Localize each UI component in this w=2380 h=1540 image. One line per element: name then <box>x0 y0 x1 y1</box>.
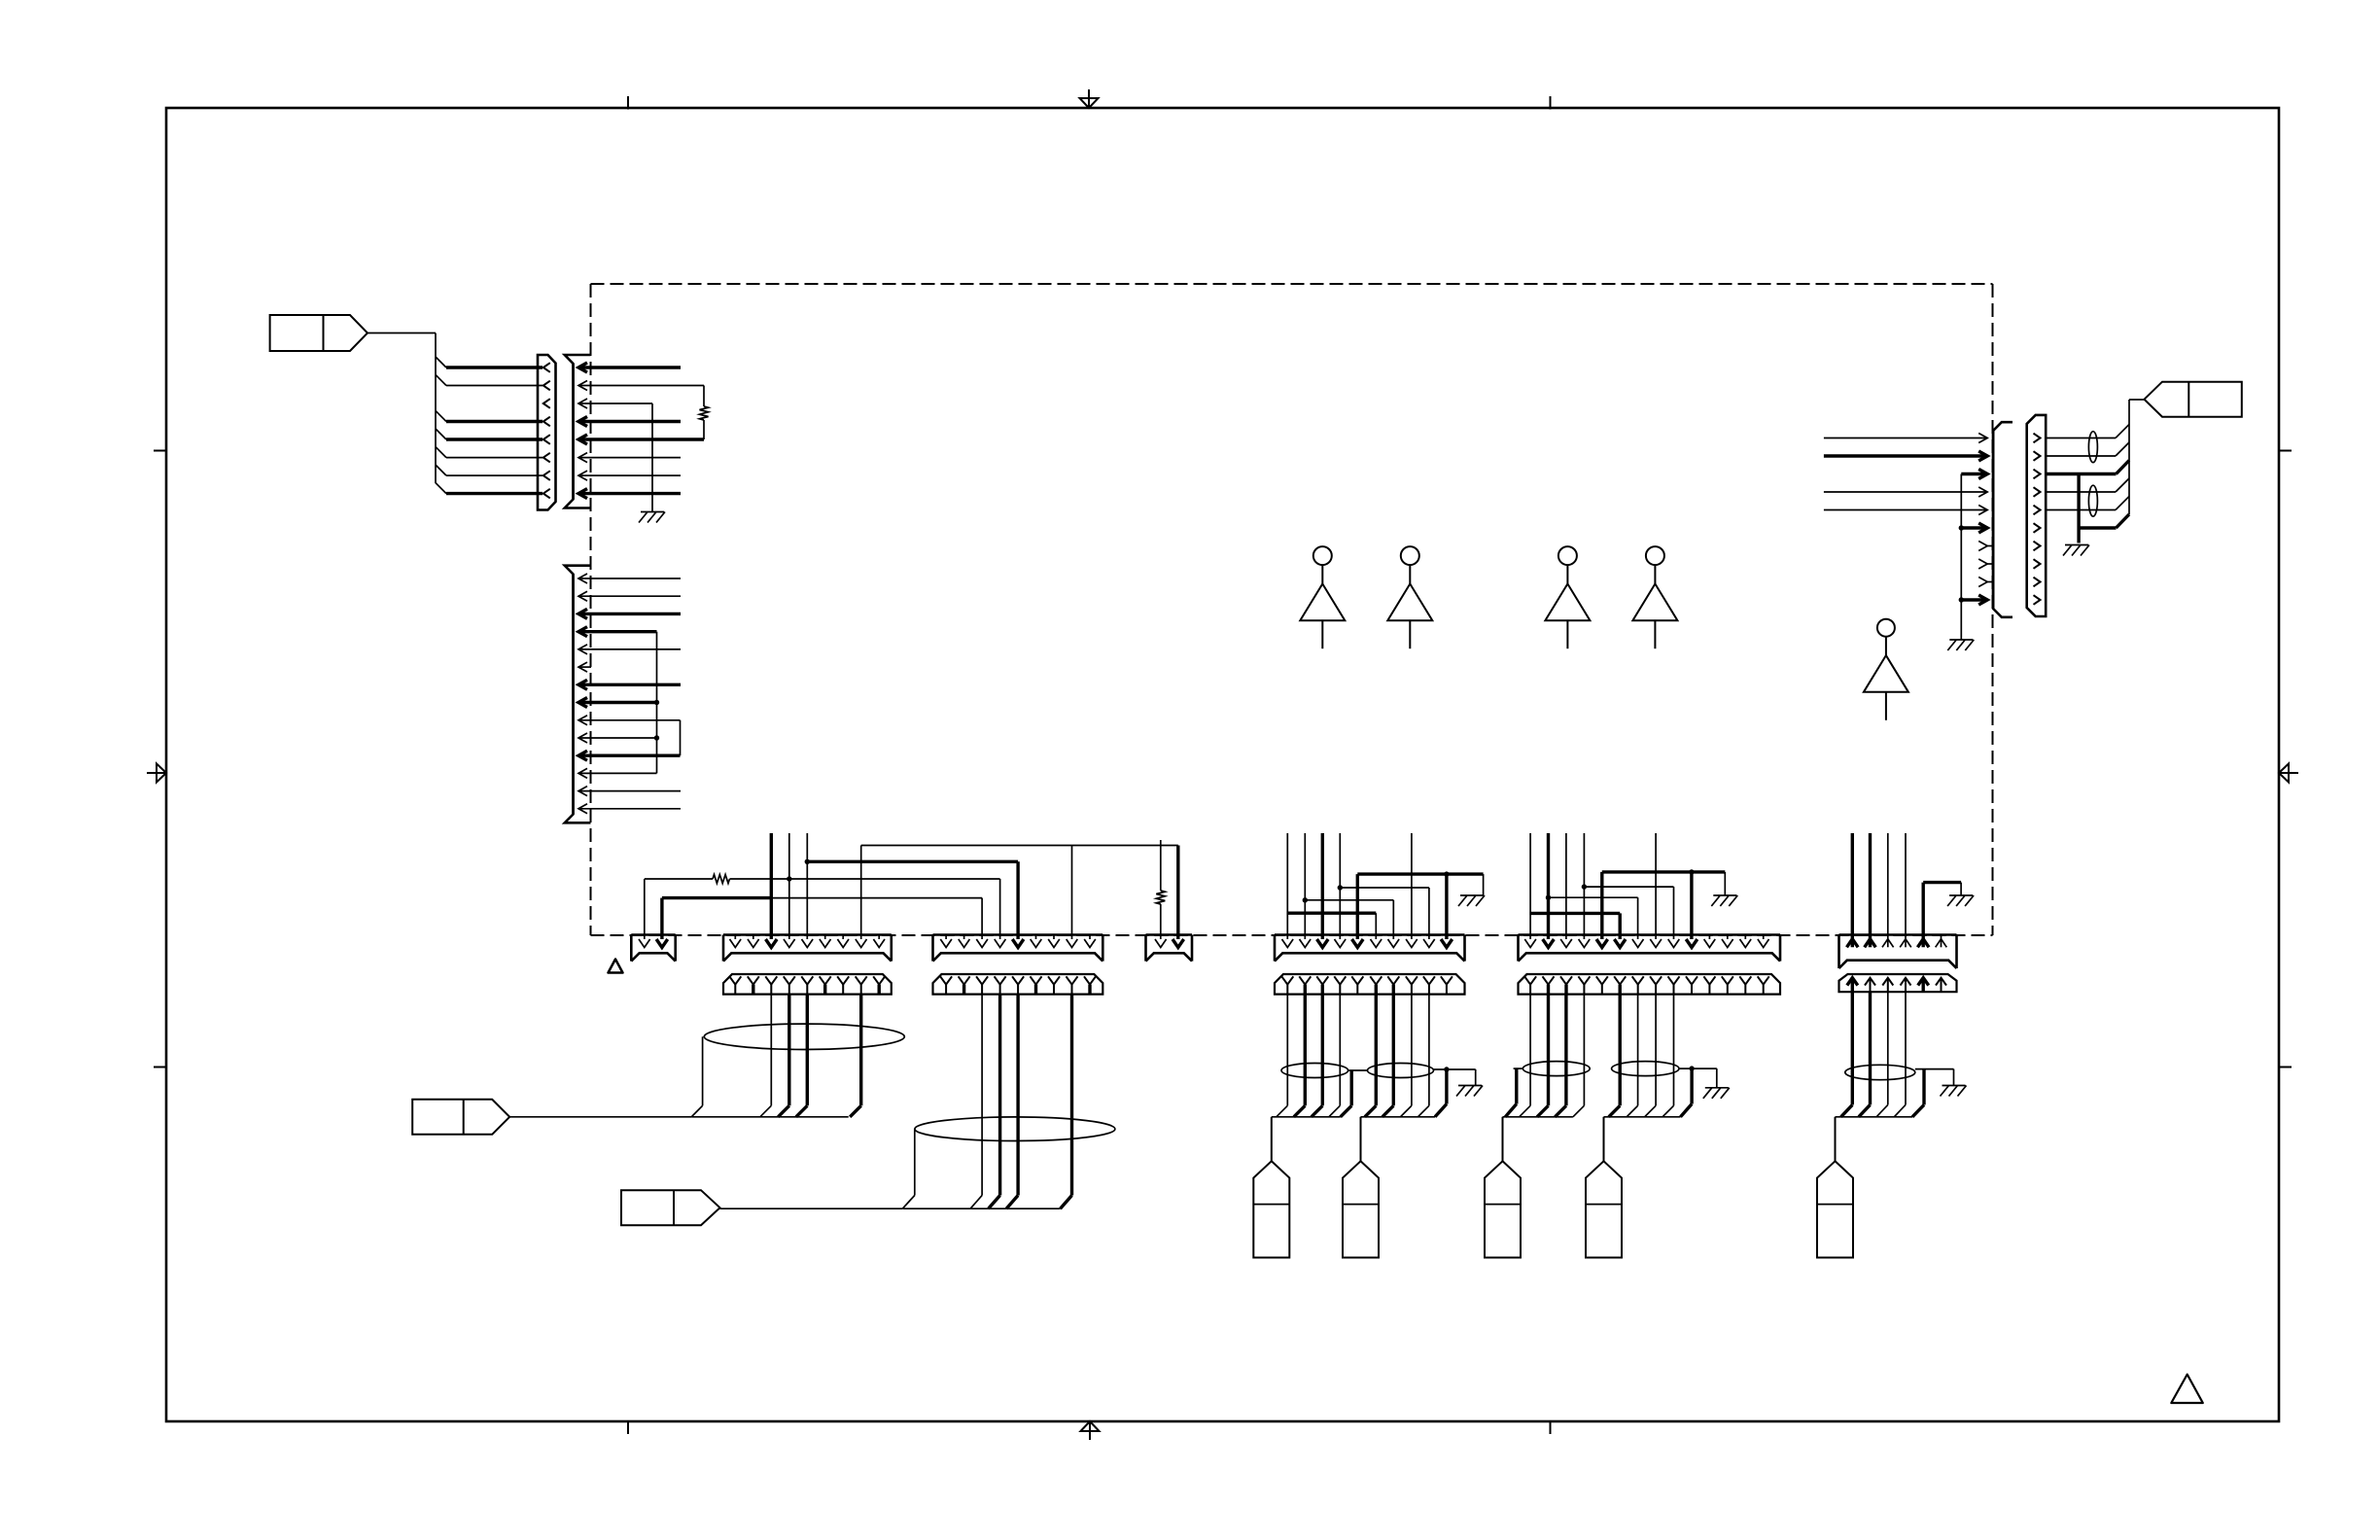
cable tie ellipse F <box>1612 1062 1679 1076</box>
cable tie ellipse C <box>1281 1064 1348 1078</box>
wire stub to P8.1 (thick) <box>1851 833 1854 947</box>
ground symbol (P6 net) <box>1458 895 1485 906</box>
cable C gather line <box>1272 1116 1341 1118</box>
cable D riser and ground link <box>1434 1069 1476 1117</box>
connector J2 pin wires <box>580 578 681 809</box>
ground symbol (J3) <box>1947 640 1974 650</box>
ground symbol (J1) <box>639 512 665 523</box>
indicator lamp DS4 <box>1632 546 1677 648</box>
wire P3.8 to P4.8 to P5.2 <box>861 846 1178 940</box>
ground symbol (cable G shield) <box>1941 1086 1967 1097</box>
loop wire B (J2 pins 9-11) <box>680 720 682 755</box>
connector P8 (6-pin, up arrows) <box>1839 935 1957 969</box>
harness fan-out wires to connector P1 <box>436 357 542 494</box>
junction P6.4 <box>1338 885 1343 890</box>
junction P3.4 on resistor net <box>787 876 791 881</box>
cable flag label W5 (bottle) <box>1343 1117 1379 1258</box>
cable bundle F wires (S7 pins 6-9) <box>1609 995 1674 1117</box>
connector J2 receptacle (14-pin bracket) <box>565 566 591 823</box>
cable tie ellipse B <box>915 1117 1115 1141</box>
junction cable D riser <box>1444 1067 1449 1071</box>
P3 pin arrows <box>730 939 886 948</box>
P6 pin arrows <box>1282 939 1452 948</box>
wire stub to P6.4 <box>1339 833 1341 939</box>
centering marker right <box>2279 764 2298 783</box>
ferrite bead FB1 <box>2088 432 2097 463</box>
connector P2 (2-pin, bottom left) <box>631 935 675 962</box>
ground branch wire (J3 pins 3/6/10) <box>1960 474 1962 641</box>
dashed module boundary box <box>591 284 1993 935</box>
junction P3.5 <box>805 859 810 864</box>
wire from flag W1 to bus <box>367 333 436 484</box>
border zone tick bottom-right <box>1550 1420 1552 1434</box>
P5 pin arrows <box>1155 939 1184 948</box>
connector J3 receptacle (right, bracket) <box>1993 422 2012 617</box>
wire stub to P3.5 <box>806 833 808 939</box>
cable F riser and ground link <box>1679 1068 1717 1117</box>
wire P7.4 to P7.9 <box>1584 887 1673 939</box>
cable bundle B wires (S4) <box>970 995 1071 1209</box>
cable tie ellipse G <box>1845 1065 1915 1079</box>
centering marker top <box>1080 89 1099 108</box>
connector S7 (14-pin mate of P7) <box>1519 974 1781 995</box>
border zone tick left-lower <box>154 1067 167 1068</box>
cable F gather line <box>1604 1116 1681 1118</box>
cable bundle G wires (S8 pins 1-4) <box>1841 992 1906 1117</box>
ground symbol (P7 net) <box>1711 895 1737 906</box>
harness bus to flag W9 <box>2129 400 2145 514</box>
centering marker left <box>147 764 166 783</box>
connector P3 (9-pin) <box>723 935 892 962</box>
connector S4 (9-pin mate of P4) <box>933 974 1103 995</box>
revision triangle marker (small) <box>609 960 623 973</box>
wire stub to P7.8 <box>1655 833 1657 939</box>
cable flag label W6 (bottle) <box>1485 1117 1521 1258</box>
wire stub to P3.3 (thick) <box>770 833 773 939</box>
wire P3.5 to P4.5 (thick) <box>807 861 1018 939</box>
cable B lead to flag W3 <box>720 1129 1061 1208</box>
cable flag label W1 (top-left) <box>270 315 367 351</box>
cable flag label W7 (bottle) <box>1586 1117 1622 1258</box>
wire stub to P6.3 (thick) <box>1321 833 1324 939</box>
sheet border frame <box>166 108 2279 1421</box>
wire stub to P6.8 <box>1411 833 1413 939</box>
cable E riser (left) <box>1505 1068 1522 1117</box>
connector S3 (9-pin mate of P3) <box>723 974 892 995</box>
junction J2 pin 8 <box>654 700 659 705</box>
wire stub to P6.2 <box>1304 833 1306 939</box>
ground symbol (cable F shield) <box>1703 1088 1730 1099</box>
cable flag label W9 (top right) <box>2145 382 2242 417</box>
wire stub to P7.3 <box>1565 833 1567 939</box>
junction P7.4 <box>1582 884 1587 889</box>
connector P1 plug (hexagonal bar) <box>538 355 556 510</box>
wire stub to P8.3 <box>1887 833 1889 947</box>
border zone tick right-upper <box>2278 450 2292 452</box>
cable flag label W3 <box>621 1190 720 1225</box>
junction P7.2 <box>1546 895 1551 900</box>
cable G gather line <box>1836 1116 1913 1118</box>
connector P5 (2-pin) <box>1146 935 1193 962</box>
cable tie ellipse E <box>1522 1062 1590 1076</box>
connector P9 pin chevrons <box>2034 434 2041 605</box>
border zone tick left-upper <box>154 450 167 452</box>
wire stub to P7.4 <box>1583 833 1585 939</box>
indicator lamp DS2 <box>1387 546 1432 648</box>
cable bundle E wires (S7 pins 1-4) <box>1520 995 1585 1117</box>
border zone tick bottom-left <box>627 1420 629 1434</box>
P4 pin arrows <box>940 939 1096 948</box>
cable tie ellipse D <box>1368 1064 1434 1078</box>
ferrite bead FB2 <box>2088 485 2097 516</box>
connector P9 plug (right hexagonal bar) <box>2027 415 2047 616</box>
indicator lamp DS3 <box>1545 546 1590 648</box>
P8 pin arrows (pointing up) <box>1847 935 1947 948</box>
cable bundle C wires (S6 pins 1-4) <box>1277 995 1341 1117</box>
wire P6.2 to P6.7 <box>1305 900 1393 939</box>
ground stub from J1 pin 3 <box>651 403 653 511</box>
connector P4 (9-pin) <box>933 935 1103 962</box>
ground symbol (P8.5) <box>1947 895 1974 906</box>
cable A lead to flag W2 <box>509 1036 849 1117</box>
centering marker bottom <box>1081 1421 1100 1440</box>
connector J1 receptacle (bracket) <box>565 355 591 508</box>
wire P7.2 to P7.7 <box>1549 897 1638 939</box>
wires P9 rows 4-5 through bead FB2 <box>2046 478 2129 510</box>
cable bundle D wires (S6 pins 6-9) <box>1365 995 1429 1117</box>
cable flag label W4 (bottle) <box>1253 1117 1289 1258</box>
ground symbol (P9 shield) <box>2063 545 2089 556</box>
cable bundle A wires (S3) <box>760 995 861 1117</box>
indicator lamp DS1 <box>1300 546 1345 648</box>
connector S8 (6-pin mate of P8, up arrows) <box>1839 974 1957 992</box>
junction J3.10 <box>1959 597 1964 602</box>
cable tie ellipse A <box>704 1024 904 1049</box>
wire P2.1 via resistor R2 to P4.4 <box>645 875 1000 940</box>
P7 stub pins <box>1709 935 1763 940</box>
ground symbol (cable D shield) <box>1456 1086 1483 1097</box>
wire stub to P8.2 (thick) <box>1869 833 1872 947</box>
connector P7 (14-pin) <box>1519 935 1781 962</box>
indicator lamp DS5 <box>1864 619 1908 720</box>
wire P6.1 to P6.6 (thick) <box>1287 913 1376 939</box>
connector P6 (10-pin) <box>1275 935 1465 962</box>
cable flag label W2 <box>412 1100 509 1135</box>
cable G riser and ground link <box>1912 1069 1954 1117</box>
border zone tick right-lower <box>2278 1067 2292 1068</box>
wire P2.2 (thick) to P3.3 / P4.3 <box>662 898 982 939</box>
junction J3.6 <box>1959 525 1964 530</box>
junction P6.10 <box>1444 871 1449 876</box>
resistor R3 on P5.1 <box>1156 840 1165 939</box>
wire stub to P7.1 <box>1529 833 1531 939</box>
wire P8.5 to ground (thick) <box>1923 883 1961 948</box>
wire net P7.5/P7.10 with ground (thick) <box>1602 872 1726 939</box>
wire stub to P3.4 <box>788 833 790 939</box>
connector J1 pin arrows and wires <box>578 363 704 499</box>
junction J2 pin 10 <box>654 735 659 740</box>
junction P7.10 <box>1689 869 1694 874</box>
junction P6.2 <box>1303 897 1308 902</box>
wire net P6.5/P6.10 with ground (thick) <box>1357 874 1483 939</box>
wire stub to P7.2 (thick) <box>1547 833 1550 939</box>
border zone tick top-left <box>627 96 629 110</box>
connector J3 pin arrows <box>1978 434 1987 606</box>
cable C riser to gather <box>1341 1070 1368 1117</box>
cable D gather line <box>1361 1116 1436 1118</box>
wire stub to P8.4 <box>1905 833 1907 947</box>
wire P7.1 to P7.6 (thick) <box>1530 913 1620 939</box>
wires into J3 from module <box>1824 438 1993 601</box>
border zone tick top-right <box>1550 96 1552 110</box>
P7 pin arrows <box>1524 939 1768 948</box>
cable flag label W8 (bottle) <box>1817 1117 1853 1258</box>
P2 pin arrows <box>639 939 668 948</box>
net stub vertical A (J2 pins 4-12) <box>656 632 658 774</box>
junction cable F riser <box>1689 1066 1694 1070</box>
connector J2 pin arrows <box>578 574 587 814</box>
pull-up resistor R1 <box>700 386 709 440</box>
cable E gather line <box>1503 1116 1573 1118</box>
wire P9 row3 (thick) with shield drop <box>2046 461 2129 543</box>
P3 stub pins <box>735 935 879 940</box>
wires P9 rows 1-2 through bead FB1 <box>2046 425 2129 457</box>
wire P6.4 to P6.9 <box>1340 888 1429 939</box>
connector P1 pin chevrons <box>543 363 550 498</box>
P4 stub pins <box>946 935 1090 940</box>
revision triangle marker <box>2171 1375 2203 1403</box>
wire stub to P6.1 <box>1286 833 1288 939</box>
connector S6 (10-pin mate of P6) <box>1275 974 1465 995</box>
